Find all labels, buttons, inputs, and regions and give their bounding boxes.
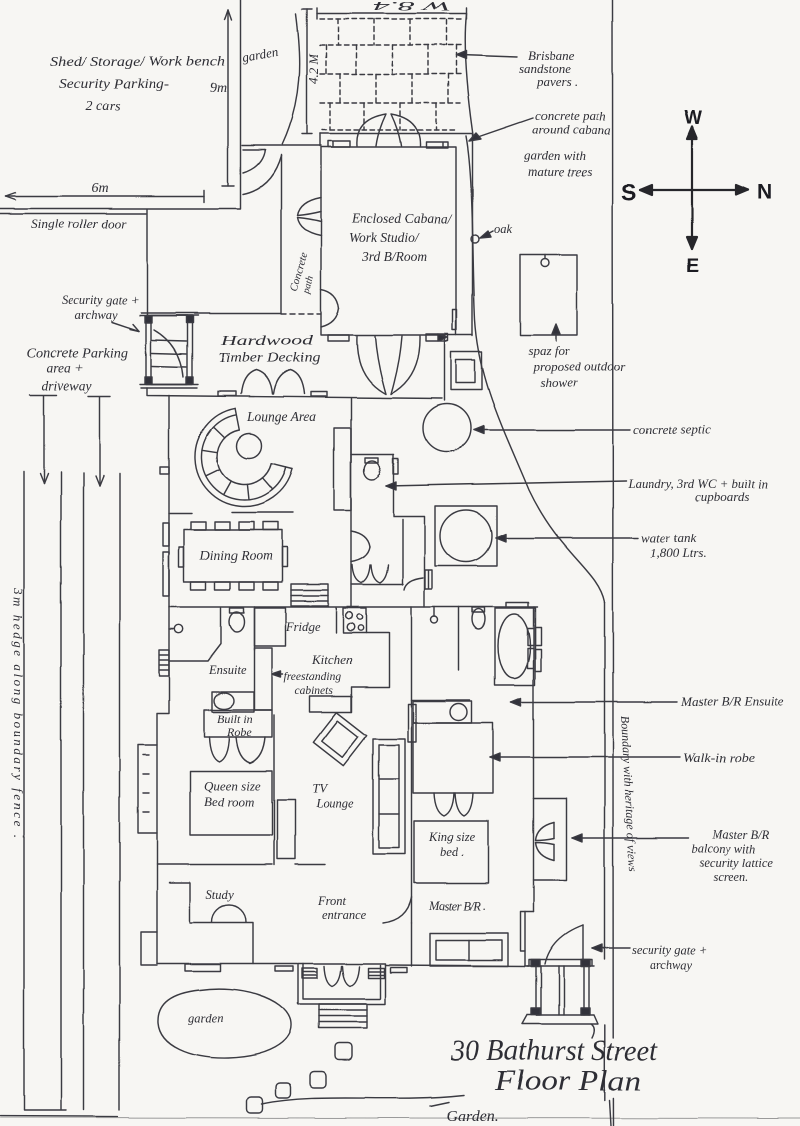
kitchen north wall — [169, 606, 537, 608]
svg-text:oak: oak — [494, 222, 513, 236]
hardwood decking label — [218, 334, 320, 366]
study walls — [169, 883, 253, 964]
west bay window 1 — [138, 745, 157, 833]
master couch — [430, 933, 508, 966]
ensuite2 basin — [212, 692, 254, 712]
east windows — [528, 628, 534, 668]
hall south doors — [351, 565, 403, 585]
east wall window tv — [408, 704, 416, 742]
master ensuite wc — [472, 608, 485, 630]
svg-text:Master B/R Ensuite: Master B/R Ensuite — [680, 694, 784, 709]
hall door frame — [425, 570, 432, 589]
stove — [336, 608, 366, 633]
west bay window 2 — [141, 932, 157, 965]
svg-text:Robe: Robe — [226, 725, 252, 739]
garden south wall — [242, 145, 321, 147]
bedside table — [277, 800, 295, 859]
deck north edge — [194, 313, 281, 315]
lounge east cupboard — [334, 428, 351, 510]
svg-text:TV: TV — [312, 782, 328, 796]
svg-text:screen.: screen. — [713, 870, 748, 884]
svg-text:Kitchen: Kitchen — [311, 652, 352, 667]
svg-text:30 Bathurst Street: 30 Bathurst Street — [450, 1034, 658, 1067]
hall door arc — [404, 578, 423, 590]
tv couch — [373, 739, 405, 854]
dining chairs top — [191, 522, 278, 530]
curved sofa — [195, 408, 293, 506]
queen bed — [190, 771, 272, 835]
south windows — [185, 964, 407, 978]
svg-text:cabinets: cabinets — [295, 685, 334, 697]
stepping stones — [247, 1043, 352, 1113]
svg-text:concrete path: concrete path — [535, 108, 606, 123]
svg-text:Floor Plan: Floor Plan — [494, 1065, 641, 1097]
boundary line — [613, 0, 614, 1126]
west fence — [146, 209, 148, 315]
dining label — [199, 548, 273, 563]
svg-text:concrete septic: concrete septic — [633, 422, 711, 437]
compass — [640, 127, 748, 249]
deck door frames — [218, 392, 327, 397]
water tank label — [496, 530, 707, 560]
master bedroom label — [428, 899, 486, 913]
tv lounge armchair — [313, 712, 366, 765]
robe south doors — [434, 793, 473, 816]
svg-text:Boundary with heritage of view: Boundary with heritage of views — [618, 715, 640, 872]
svg-text:4.2 M: 4.2 M — [306, 53, 321, 85]
svg-text:Dining Room: Dining Room — [199, 548, 273, 563]
svg-text:Master B/R .: Master B/R . — [428, 899, 486, 913]
svg-text:bed .: bed . — [440, 845, 464, 859]
west window lounge — [160, 467, 169, 474]
svg-text:proposed outdoor: proposed outdoor — [532, 359, 626, 374]
compass labels — [621, 108, 772, 277]
svg-text:Garden.: Garden. — [446, 1108, 498, 1125]
porch steps — [319, 1004, 367, 1028]
path west wall — [280, 155, 282, 314]
water tank — [435, 506, 497, 566]
sofa table — [237, 434, 262, 459]
built-in robe — [204, 710, 272, 739]
laundry east wall — [394, 454, 425, 607]
bottom scan line — [0, 1118, 800, 1119]
kitchen label — [311, 652, 352, 667]
oak tree — [471, 222, 513, 243]
svg-text:Lounge Area: Lounge Area — [246, 409, 317, 424]
kitchen bench — [352, 633, 390, 712]
svg-text:W: W — [684, 108, 702, 129]
concrete path label right — [469, 108, 611, 141]
svg-text:1,800 Ltrs.: 1,800 Ltrs. — [650, 545, 707, 560]
paver W8.4 dimension — [317, 0, 466, 19]
garden door arc — [243, 150, 265, 173]
svg-text:mature trees: mature trees — [528, 164, 592, 179]
svg-text:Lounge: Lounge — [315, 797, 354, 811]
svg-text:Single roller door: Single roller door — [31, 217, 126, 231]
svg-text:Queen size: Queen size — [204, 778, 261, 793]
study chair — [212, 905, 246, 922]
laundry label — [386, 476, 768, 504]
lounge south stubs — [169, 513, 293, 514]
svg-text:security gate +: security gate + — [632, 943, 708, 957]
driveway lines — [24, 471, 120, 1111]
svg-text:King size: King size — [428, 830, 476, 844]
hedge label — [11, 587, 26, 838]
cabana east door frame — [453, 310, 457, 330]
planter box — [451, 352, 482, 390]
shed label — [50, 55, 225, 114]
svg-text:N: N — [757, 181, 772, 204]
east wall window south — [521, 912, 534, 966]
kitchen wc wall — [254, 607, 256, 650]
path south-east edge — [438, 334, 473, 401]
svg-text:Walk-in robe: Walk-in robe — [683, 750, 755, 765]
front door — [383, 898, 412, 924]
pavers label — [456, 48, 578, 89]
sandstone pavers — [320, 19, 462, 130]
house east wall — [533, 607, 535, 798]
title — [446, 1034, 658, 1125]
laundry wc — [364, 458, 380, 480]
cabana door frame left — [328, 141, 350, 147]
door knob kitchen wall — [431, 607, 438, 624]
svg-text:garden: garden — [241, 44, 279, 65]
svg-text:3rd B/Room: 3rd B/Room — [361, 249, 427, 264]
king bed — [414, 821, 488, 883]
interior east wall — [411, 607, 413, 966]
stairs — [291, 584, 328, 606]
security gate label west — [62, 293, 139, 331]
pantry box — [255, 608, 286, 646]
master ensuite label — [511, 694, 784, 709]
house west wall — [157, 396, 169, 964]
cabana sw doors — [321, 289, 339, 327]
outdoor shower label — [528, 324, 626, 390]
security gate west — [140, 313, 198, 388]
svg-text:Hardwood: Hardwood — [219, 334, 314, 349]
balcony label — [572, 828, 773, 884]
cabinet column — [255, 648, 273, 710]
svg-text:water tank: water tank — [641, 530, 696, 545]
queen bedroom east wall — [273, 715, 275, 865]
svg-text:9m: 9m — [210, 81, 227, 96]
garden curve west of pavers — [282, 14, 300, 145]
shed 9m dimension — [210, 10, 234, 186]
kitchen island — [310, 696, 352, 712]
laundry north wall — [351, 453, 394, 455]
svg-text:area +: area + — [47, 360, 84, 375]
balcony — [534, 798, 567, 912]
concrete parking label — [27, 345, 128, 393]
wc knob — [169, 625, 183, 633]
garden mature trees label — [524, 148, 592, 179]
driveway bottom edge — [0, 1115, 118, 1118]
svg-text:security lattice: security lattice — [699, 856, 773, 870]
south wall — [157, 964, 529, 967]
svg-text:shower: shower — [540, 375, 579, 390]
single roller door line — [0, 214, 146, 232]
svg-text:Study: Study — [206, 888, 234, 902]
cabana north french doors — [357, 114, 420, 146]
cabana door frame right — [426, 142, 448, 148]
paver garden curve east — [465, 14, 473, 135]
garden oval — [158, 989, 292, 1058]
security gate south label — [592, 943, 708, 972]
septic label — [474, 422, 711, 437]
svg-text:freestanding: freestanding — [284, 671, 341, 683]
cabana south french doors — [357, 336, 420, 394]
svg-text:cupboards: cupboards — [695, 489, 749, 504]
master ensuite vanity — [412, 700, 473, 723]
concrete path outer wall — [320, 134, 473, 337]
west windows dining — [163, 523, 169, 596]
garden wave bottom — [262, 1095, 464, 1106]
svg-text:Master B/R: Master B/R — [711, 828, 770, 842]
property boundary curve — [466, 136, 605, 602]
svg-text:Bed room: Bed room — [204, 794, 254, 809]
freestanding cabinets label — [272, 671, 341, 697]
driveway arrows — [30, 395, 110, 486]
svg-text:Ensuite: Ensuite — [208, 663, 247, 677]
cabana west doors — [298, 198, 322, 236]
svg-text:Built in: Built in — [217, 712, 253, 726]
tv lounge label — [312, 782, 354, 811]
deck south edge — [147, 388, 442, 399]
laundry door frame — [393, 458, 398, 474]
svg-text:garden: garden — [188, 1011, 223, 1025]
cabana label — [349, 211, 453, 264]
walk-in robe label — [490, 750, 755, 765]
porch doors — [324, 966, 359, 986]
ensuite2 label — [208, 663, 247, 677]
svg-text:Timber Decking: Timber Decking — [218, 351, 320, 366]
boundary label — [618, 715, 640, 872]
shed walls — [0, 0, 241, 209]
walk-in robe — [413, 723, 493, 793]
svg-text:Work Studio/: Work Studio/ — [349, 230, 420, 245]
kitchen wc — [230, 608, 245, 632]
svg-text:Front: Front — [317, 894, 347, 908]
cabana south door frames — [328, 334, 448, 341]
svg-text:6m: 6m — [91, 181, 108, 196]
lounge east doors — [351, 531, 370, 562]
svg-text:balcony with: balcony with — [691, 842, 755, 856]
svg-text:Fridge: Fridge — [285, 620, 320, 634]
bath — [495, 603, 541, 686]
svg-text:entrance: entrance — [322, 908, 366, 922]
porch — [298, 964, 385, 1005]
svg-text:archway: archway — [650, 958, 693, 972]
svg-text:spaz for: spaz for — [528, 343, 570, 358]
svg-text:driveway: driveway — [42, 378, 92, 393]
front entrance label — [317, 894, 366, 922]
garden label top — [241, 44, 279, 65]
svg-text:S: S — [621, 179, 636, 205]
svg-text:Security gate +: Security gate + — [62, 293, 139, 307]
septic tank — [423, 404, 471, 452]
svg-text:Security Parking-: Security Parking- — [59, 77, 169, 92]
deck french doors — [241, 370, 304, 394]
fridge label — [285, 620, 320, 634]
svg-text:around cabana: around cabana — [532, 122, 611, 137]
svg-text:W 8.4: W 8.4 — [372, 0, 451, 14]
svg-text:garden with: garden with — [524, 148, 586, 163]
concrete path label — [288, 251, 316, 296]
paver 4.2M dimension — [302, 9, 321, 134]
robe doors — [209, 737, 265, 763]
queen south wall — [157, 864, 325, 866]
svg-text:archway: archway — [75, 308, 118, 322]
security gate south — [522, 925, 598, 1038]
study label — [206, 888, 234, 902]
path gate arc — [243, 156, 281, 194]
svg-text:3m hedge along boundary fence: 3m hedge along boundary fence . — [11, 587, 26, 838]
lounge east wall — [350, 399, 352, 608]
lounge label — [246, 409, 317, 424]
svg-text:Shed/ Storage/ Work bench: Shed/ Storage/ Work bench — [50, 55, 225, 70]
ensuite2 walls — [169, 608, 221, 661]
svg-text:2 cars: 2 cars — [86, 99, 121, 114]
shed 6m dimension — [6, 181, 204, 202]
svg-text:E: E — [686, 256, 699, 277]
cabana — [321, 147, 456, 335]
dining table — [179, 530, 287, 582]
ensuite2 window — [159, 650, 169, 676]
svg-text:Concrete Parking: Concrete Parking — [27, 345, 128, 360]
svg-text:Enclosed Cabana/: Enclosed Cabana/ — [351, 211, 453, 226]
svg-text:pavers .: pavers . — [536, 74, 578, 89]
deck dashed edge — [281, 313, 321, 315]
outdoor shower space — [520, 255, 577, 335]
boundary inner line — [605, 602, 612, 1126]
master ensuite shower wall — [458, 607, 460, 670]
hall west wall — [402, 520, 404, 586]
dining chairs bottom — [191, 582, 278, 590]
